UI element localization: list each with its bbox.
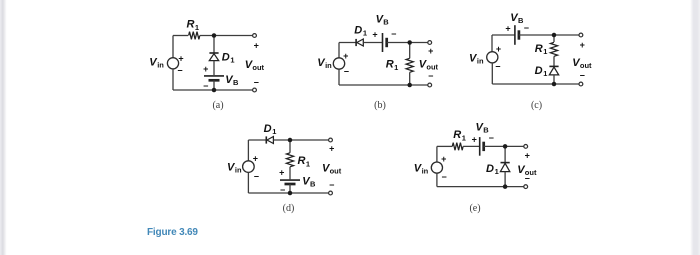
svg-text:B: B [233, 78, 239, 87]
svg-text:−: − [344, 66, 349, 76]
svg-text:−: − [254, 77, 259, 87]
svg-text:in: in [157, 61, 164, 70]
svg-text:1: 1 [394, 63, 398, 72]
svg-text:1: 1 [495, 167, 499, 176]
svg-text:−: − [495, 61, 500, 71]
svg-text:1: 1 [462, 133, 466, 142]
svg-text:(a): (a) [212, 100, 223, 111]
svg-text:+: + [372, 29, 377, 39]
svg-text:1: 1 [543, 69, 547, 78]
svg-text:+: + [580, 40, 585, 50]
svg-text:−: − [580, 71, 585, 81]
svg-text:in: in [477, 57, 484, 66]
svg-text:−: − [203, 81, 208, 91]
svg-text:−: − [177, 66, 182, 76]
svg-text:−: − [525, 174, 530, 184]
svg-text:D: D [222, 51, 230, 63]
svg-text:1: 1 [306, 159, 310, 168]
svg-text:R: R [453, 129, 461, 141]
svg-text:in: in [422, 167, 429, 176]
svg-text:B: B [383, 17, 389, 26]
svg-text:−: − [280, 185, 285, 195]
svg-text:out: out [580, 61, 592, 70]
svg-text:R: R [187, 19, 195, 31]
svg-text:+: + [178, 53, 183, 63]
svg-text:1: 1 [363, 28, 367, 37]
svg-text:−: − [391, 29, 396, 39]
svg-text:+: + [441, 154, 446, 164]
svg-text:+: + [428, 46, 433, 56]
svg-text:+: + [472, 135, 477, 145]
svg-text:−: − [441, 172, 446, 182]
svg-text:−: − [329, 180, 334, 190]
svg-text:(e): (e) [469, 203, 480, 214]
svg-text:out: out [330, 166, 342, 175]
svg-text:B: B [310, 180, 316, 189]
svg-text:D: D [486, 163, 494, 175]
svg-text:−: − [254, 171, 259, 181]
svg-text:D: D [264, 123, 272, 135]
svg-text:R: R [386, 59, 394, 71]
svg-text:(b): (b) [374, 100, 386, 111]
svg-text:1: 1 [272, 127, 276, 136]
svg-text:R: R [298, 155, 306, 167]
svg-text:in: in [235, 166, 242, 175]
svg-text:−: − [524, 23, 529, 33]
svg-text:+: + [203, 64, 208, 74]
svg-text:−: − [489, 133, 494, 143]
svg-text:+: + [279, 168, 284, 178]
svg-text:+: + [496, 44, 501, 54]
svg-text:1: 1 [195, 23, 199, 32]
svg-text:+: + [329, 144, 334, 154]
svg-text:D: D [535, 65, 543, 77]
svg-text:1: 1 [543, 47, 547, 56]
svg-text:in: in [325, 61, 332, 70]
svg-text:(c): (c) [531, 100, 542, 111]
svg-text:out: out [252, 63, 264, 72]
svg-text:+: + [253, 153, 258, 163]
svg-text:R: R [535, 43, 543, 55]
svg-text:+: + [254, 41, 259, 51]
svg-text:−: − [428, 71, 433, 81]
svg-text:+: + [525, 151, 530, 161]
svg-text:+: + [505, 23, 510, 33]
svg-text:D: D [354, 24, 362, 36]
svg-text:1: 1 [230, 55, 234, 64]
svg-text:(d): (d) [283, 203, 295, 214]
svg-text:+: + [343, 51, 348, 61]
